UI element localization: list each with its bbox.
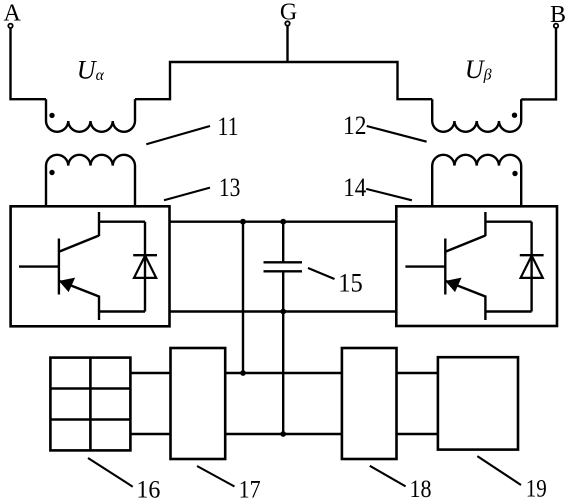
transformer 12 primary winding (432, 99, 521, 132)
IGBT Q2 emitter arrow (446, 278, 461, 291)
leader line 15 (308, 268, 335, 279)
transformer 11 secondary winding (46, 155, 135, 206)
diode D1 triangle (134, 256, 156, 278)
svg-text:11: 11 (218, 112, 239, 141)
polarity dot 11 secondary (49, 170, 54, 175)
diode D2 triangle (521, 256, 543, 278)
junction dot lower wire right (280, 431, 286, 437)
svg-text:13: 13 (219, 173, 241, 202)
IGBT Q1 collector lead (98, 212, 100, 236)
capacitor 15 bottom plate (264, 270, 303, 272)
IGBT Q1 emitter arrow (60, 278, 75, 291)
IGBT Q2 emitter diagonal (446, 281, 486, 297)
wire from terminal A (11, 28, 47, 99)
diode D2 cathode bar (520, 254, 544, 256)
wire 16 to 17 upper (130, 372, 170, 374)
wire 17 to 18 upper (225, 372, 342, 374)
leader line 19 (477, 456, 521, 485)
wire 16 to 17 lower (130, 433, 170, 435)
leader line 14 (366, 189, 412, 200)
wire Q2 collector to diode D2 (485, 220, 531, 222)
wire branch left vertical (242, 222, 244, 373)
transformer 11 primary winding (46, 99, 135, 132)
capacitor 15 top plate (264, 261, 303, 263)
IGBT Q1 gate lead (19, 265, 59, 267)
wire Q1 emitter to diode D1 (99, 310, 145, 312)
diode D1 cathode lead (144, 222, 146, 312)
leader line 13 (164, 188, 210, 201)
junction dot bottom bus (280, 309, 286, 315)
wire Q1 collector to diode D1 (99, 220, 145, 222)
diode D2 cathode lead (530, 222, 532, 312)
leader line 11 (146, 126, 210, 144)
polarity dot 12 secondary (512, 171, 517, 176)
block 19 (438, 357, 518, 449)
junction dot top bus right (280, 219, 286, 225)
converter block 13 (11, 206, 170, 326)
IGBT Q1 emitter diagonal (60, 281, 100, 297)
junction dot top bus left (240, 219, 246, 225)
capacitor 15 bottom lead (282, 271, 284, 434)
converter block 14 (396, 206, 557, 326)
diode D1 cathode bar (133, 254, 157, 256)
wire from terminal G (286, 26, 288, 62)
svg-text:15: 15 (338, 269, 363, 298)
leader line 16 (88, 458, 133, 487)
wire from terminal B (521, 28, 556, 99)
IGBT Q2 bar (444, 239, 446, 295)
svg-text:19: 19 (526, 476, 547, 500)
IGBT Q2 collector lead (484, 212, 486, 236)
svg-text:A: A (4, 0, 22, 26)
junction dot lower wire left (240, 370, 246, 376)
wire 17 to 18 lower (225, 433, 342, 435)
IGBT Q1 collector diagonal (59, 236, 99, 252)
IGBT Q2 gate lead (405, 265, 445, 267)
terminal G (285, 21, 289, 25)
capacitor 15 top lead (282, 222, 284, 263)
terminal B (554, 24, 558, 28)
top dc bus wire (170, 220, 397, 222)
IGBT Q1 bar (58, 239, 60, 295)
terminal A (8, 24, 12, 28)
IGBT Q2 emitter lead (484, 296, 486, 321)
wire 18 to 19 upper (397, 372, 438, 374)
wire Q2 emitter to diode D2 (485, 310, 531, 312)
transformer 12 secondary winding (432, 155, 521, 206)
IGBT Q2 collector diagonal (445, 236, 485, 252)
svg-text:18: 18 (410, 476, 432, 500)
leader line 17 (197, 466, 235, 487)
bottom dc bus wire (170, 310, 397, 312)
wire top middle run (135, 62, 432, 99)
polarity dot 12 primary (512, 113, 517, 118)
block 18 (342, 348, 397, 459)
svg-text:14: 14 (343, 173, 366, 202)
IGBT Q1 emitter lead (98, 296, 100, 321)
wire 18 to 19 lower (397, 433, 438, 435)
polarity dot 11 primary (49, 113, 54, 118)
svg-text:16: 16 (136, 477, 160, 500)
leader line 18 (370, 466, 406, 487)
svg-text:17: 17 (239, 477, 261, 500)
block 17 (171, 348, 226, 459)
leader line 12 (367, 126, 427, 142)
svg-text:12: 12 (343, 111, 367, 140)
block 16 grid (50, 358, 130, 451)
